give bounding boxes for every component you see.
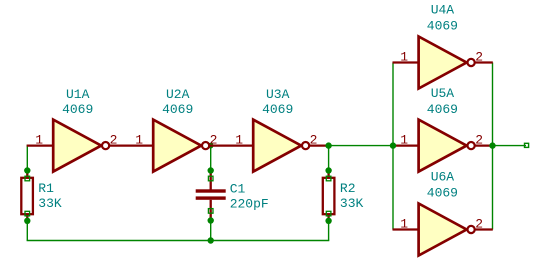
- svg-text:U1A: U1A: [66, 87, 90, 102]
- svg-text:2: 2: [210, 133, 218, 148]
- svg-text:4069: 4069: [162, 102, 193, 117]
- svg-text:C1: C1: [230, 181, 246, 196]
- svg-text:1: 1: [135, 133, 143, 148]
- svg-text:1: 1: [35, 133, 43, 148]
- svg-text:2: 2: [310, 133, 318, 148]
- svg-text:2: 2: [110, 133, 118, 148]
- svg-text:33K: 33K: [38, 196, 62, 211]
- svg-text:2: 2: [475, 133, 483, 148]
- svg-text:220pF: 220pF: [230, 196, 269, 211]
- svg-text:1: 1: [235, 133, 243, 148]
- svg-text:R1: R1: [38, 181, 54, 196]
- svg-text:33K: 33K: [340, 196, 364, 211]
- svg-text:U2A: U2A: [166, 87, 190, 102]
- svg-text:U3A: U3A: [266, 87, 290, 102]
- svg-text:U4A: U4A: [431, 2, 455, 17]
- svg-text:4069: 4069: [427, 19, 458, 34]
- svg-text:1: 1: [400, 133, 408, 148]
- svg-text:2: 2: [475, 49, 483, 64]
- svg-text:4069: 4069: [427, 186, 458, 201]
- svg-text:U5A: U5A: [431, 86, 455, 101]
- svg-text:R2: R2: [340, 181, 356, 196]
- svg-text:1: 1: [400, 216, 408, 231]
- svg-text:2: 2: [475, 216, 483, 231]
- svg-text:4069: 4069: [427, 102, 458, 117]
- svg-text:1: 1: [400, 49, 408, 64]
- svg-text:U6A: U6A: [431, 170, 455, 185]
- svg-text:4069: 4069: [262, 102, 293, 117]
- svg-text:4069: 4069: [62, 102, 93, 117]
